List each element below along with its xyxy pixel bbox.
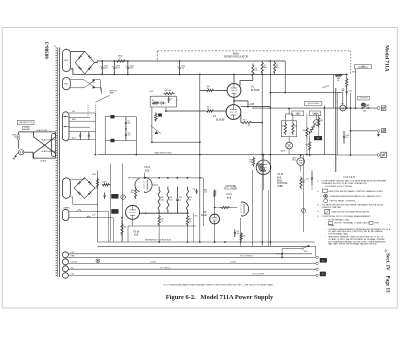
- svg-text:R52: R52: [303, 130, 306, 132]
- capacitor C607: [179, 61, 181, 67]
- svg-text:V3 B: V3 B: [133, 229, 139, 233]
- reference bus junctions: [158, 241, 160, 243]
- primary winding: [52, 134, 56, 157]
- svg-text:V3 A: V3 A: [144, 165, 150, 169]
- svg-text:R14: R14: [243, 120, 246, 122]
- error network side wires: [149, 96, 151, 107]
- svg-text:R84: R84: [337, 78, 340, 80]
- indicator lamp B601: [286, 142, 293, 149]
- wire R603 to V1: [240, 78, 253, 86]
- capacitor C610: [125, 129, 127, 134]
- svg-text:R21: R21: [281, 126, 284, 128]
- resistor R337: [186, 215, 188, 227]
- svg-text:R60: R60: [123, 227, 126, 229]
- svg-text:R304: R304: [103, 181, 107, 183]
- wire TK down: [281, 254, 283, 258]
- svg-text:SERIES REGULATOR: SERIES REGULATOR: [224, 55, 249, 58]
- wire plug to selector: [24, 151, 33, 153]
- svg-text:OHM/VOLT METER.: OHM/VOLT METER.: [322, 207, 342, 209]
- output terminal J1 (+100): [377, 107, 380, 110]
- left sense rail: [104, 117, 106, 154]
- connector plug P2: [320, 272, 326, 276]
- heater line 5: [68, 274, 315, 276]
- V4B top wires: [306, 114, 308, 127]
- series resistor R601: [116, 60, 127, 62]
- svg-text:6L6GB: 6L6GB: [251, 88, 260, 92]
- rail x262: [261, 74, 263, 245]
- resistor R330: [158, 187, 160, 214]
- winding W5: [62, 178, 70, 199]
- svg-text:R8 2.2M: R8 2.2M: [165, 90, 172, 92]
- W6 drops: [105, 211, 108, 242]
- svg-text:60386-3: 60386-3: [44, 41, 50, 58]
- wire tp2: [105, 140, 110, 142]
- dark box B602: [314, 136, 322, 140]
- resistor R612 (V2 grid): [206, 110, 215, 112]
- resistor R622: [292, 122, 294, 135]
- +100V output line: [241, 106, 252, 108]
- gnd output line: [351, 130, 378, 132]
- output terminal J2 (gnd): [377, 130, 380, 133]
- resistor R624 diag: [308, 124, 315, 135]
- svg-text:6U8: 6U8: [227, 197, 232, 199]
- wire V2 plate line: [241, 106, 270, 108]
- boxed label +100 volts: [358, 96, 370, 100]
- bridge D602 out wire: [95, 187, 98, 189]
- wire W2 to bridge bottom: [70, 69, 85, 75]
- bridge D601 output wire: [94, 62, 97, 64]
- heater line 4: [68, 268, 315, 270]
- svg-text:68k: 68k: [250, 161, 253, 163]
- wire primary left: [17, 132, 19, 135]
- rail x268: [267, 190, 269, 246]
- resistor R614 (V2 cathode): [240, 115, 242, 123]
- transformer T601 core: [59, 48, 61, 278]
- winding W4: [62, 112, 69, 141]
- wire R660: [121, 218, 123, 223]
- capacitor C605: [343, 131, 345, 137]
- svg-text:AMP: AMP: [110, 92, 115, 95]
- resistor R608: [164, 93, 175, 95]
- capacitor C650: [311, 172, 313, 178]
- winding W2 (rectifier): [62, 49, 70, 71]
- resistor R604: [274, 61, 276, 74]
- svg-text:OBTAINED WITH 117V AC LINE OPE: OBTAINED WITH 117V AC LINE OPERATION.: [322, 182, 368, 185]
- boxed label free regulation: [355, 64, 372, 68]
- wire x193 drop: [192, 213, 194, 242]
- svg-text:GREEN: GREEN: [64, 208, 71, 210]
- svg-text:100: 100: [254, 70, 257, 72]
- tube V2: [226, 105, 241, 120]
- V3 row top junctions: [158, 177, 160, 179]
- error network top rail: [150, 95, 176, 97]
- resistor R652: [306, 127, 308, 138]
- svg-text:NO EXTERNAL LOAD.: NO EXTERNAL LOAD.: [328, 218, 350, 221]
- filter capacitor C602: [113, 61, 115, 67]
- wire W5 to bridge2 top: [70, 178, 84, 180]
- resistor R660: [121, 223, 123, 236]
- svg-text:100k: 100k: [161, 199, 165, 201]
- rail x203: [202, 178, 204, 226]
- V3B grid arrow: [145, 212, 148, 214]
- lamp network box: [281, 121, 296, 137]
- svg-text:.1uF: .1uF: [127, 135, 130, 137]
- svg-text:VOLTS: VOLTS: [295, 114, 300, 116]
- svg-text:C41: C41: [192, 189, 195, 191]
- tube V3B: [126, 205, 140, 219]
- tube V5: [210, 214, 220, 224]
- svg-text:47: 47: [207, 88, 209, 90]
- heater line 3: [68, 262, 315, 264]
- svg-text:Ⓡ: Ⓡ: [384, 248, 387, 253]
- svg-text:10k: 10k: [264, 67, 267, 69]
- svg-text:10k: 10k: [189, 221, 192, 223]
- svg-text:Figure 6-2. Model 711A Power: Figure 6-2. Model 711A Power Supply: [166, 294, 274, 301]
- W4 tap 4: [69, 126, 90, 128]
- svg-text:FRONT-PANEL CONTROL.: FRONT-PANEL CONTROL.: [330, 199, 357, 202]
- svg-text:R51: R51: [302, 180, 305, 182]
- V3 lower rail: [128, 225, 196, 227]
- svg-text:V5: V5: [203, 210, 207, 214]
- svg-text:SW3: SW3: [304, 251, 308, 253]
- switch SW602: [361, 107, 363, 109]
- boxed label dc volts: [309, 111, 320, 116]
- svg-text:DENOTES FRONT-PANEL CONTROL MA: DENOTES FRONT-PANEL CONTROL MARKING ONLY…: [329, 190, 384, 193]
- svg-text:BLACK-RED: BLACK-RED: [37, 129, 49, 132]
- meter M601: [340, 105, 346, 111]
- resistor R640: [214, 190, 216, 198]
- pot R654: [301, 209, 305, 213]
- svg-text:SW2: SW2: [363, 111, 366, 113]
- winding W3: [62, 77, 70, 89]
- V3B grid rail: [140, 212, 189, 214]
- svg-text:TUBE: TUBE: [277, 186, 283, 188]
- svg-text:BLACK: BLACK: [41, 160, 48, 163]
- fuse F601: [17, 135, 20, 138]
- svg-text:TO V4, V5 HTRS: TO V4, V5 HTRS: [252, 274, 264, 276]
- svg-text:CONDITIONS OF DC VOLTAGE MEASU: CONDITIONS OF DC VOLTAGE MEASUREMENT:: [322, 215, 372, 218]
- svg-text:6L6GB: 6L6GB: [216, 118, 225, 122]
- svg-text:V4 B: V4 B: [277, 172, 283, 176]
- svg-text:6U8: 6U8: [145, 170, 150, 173]
- wire error out down: [151, 107, 153, 142]
- filter capacitor C603: [127, 61, 129, 67]
- W6 hops: [78, 210, 81, 212]
- rail x252: [251, 170, 253, 246]
- svg-text:.1uF: .1uF: [236, 233, 239, 235]
- svg-text:YEL: YEL: [72, 111, 75, 113]
- svg-text:R42: R42: [243, 235, 246, 237]
- wire error to V2 grid: [165, 107, 167, 111]
- resistor R651: [300, 177, 302, 190]
- resistor R331: [167, 187, 169, 214]
- svg-text:MINAL.: MINAL.: [328, 224, 335, 227]
- svg-text:6.3V: 6.3V: [91, 82, 96, 84]
- svg-text:.1uF: .1uF: [127, 122, 130, 124]
- W6 line 2: [69, 217, 105, 219]
- dashed shield pair: [87, 105, 89, 118]
- svg-text:BIAS: BIAS: [277, 180, 283, 183]
- svg-text:220k: 220k: [169, 199, 173, 201]
- sense terminal TP2: [111, 139, 115, 142]
- svg-text:R7: R7: [152, 100, 154, 102]
- svg-text:DC VOLTAGES AND WAVEFORMS OBTA: DC VOLTAGES AND WAVEFORMS OBTAINED UNDER…: [164, 283, 274, 286]
- heater wire 1: [70, 80, 101, 94]
- V4A grid line: [220, 207, 221, 209]
- bridge rectifier D601: [75, 51, 94, 74]
- svg-text:6U8: 6U8: [134, 235, 139, 237]
- winding W6: [62, 209, 68, 220]
- svg-text:C50: C50: [306, 179, 309, 181]
- svg-text:OUTPUT TERMINAL CONNECTED TO: OUTPUT TERMINAL CONNECTED TO: [334, 222, 370, 225]
- svg-text:.05: .05: [345, 137, 347, 139]
- svg-text:R36: R36: [161, 219, 164, 221]
- error amp diagonal wire: [95, 95, 109, 102]
- svg-text:C8: C8: [170, 99, 172, 101]
- heater line 1: [68, 253, 312, 255]
- svg-text:4.7: 4.7: [119, 58, 122, 60]
- rail x303 lower: [303, 155, 305, 232]
- svg-text:Model 711A: Model 711A: [384, 45, 390, 72]
- svg-text:BLACK-GREEN: BLACK-GREEN: [42, 150, 56, 153]
- heater crossing arrows: [93, 86, 96, 89]
- svg-text:4.7k: 4.7k: [204, 192, 207, 194]
- wire W2 to bridge top: [70, 51, 85, 53]
- rail x270: [269, 61, 271, 246]
- bias bus y154.6: [98, 154, 336, 156]
- V3 top rail: [128, 177, 203, 179]
- screen bias network: [333, 74, 335, 108]
- resistor R650: [253, 157, 255, 167]
- svg-text:B601: B601: [281, 151, 285, 153]
- wire c650: [311, 170, 313, 172]
- reference bus: [140, 241, 315, 243]
- resistor R310: [97, 178, 99, 188]
- svg-text:TER-: TER-: [374, 223, 379, 225]
- diode D607: [161, 102, 164, 105]
- V3 inner rail2: [122, 164, 124, 241]
- thermal switch wire: [282, 249, 302, 254]
- svg-text:+100 VOLTS: +100 VOLTS: [359, 98, 368, 100]
- AC plug P601: [19, 150, 24, 155]
- thermal switch wire2: [309, 246, 316, 256]
- resistor R336: [158, 215, 160, 227]
- svg-text:C30: C30: [179, 197, 182, 199]
- cap on taps 1: [79, 132, 81, 136]
- W4 tap 5: [69, 131, 96, 133]
- svg-text:SCREWDRIVER ADJUSTMENT ON CHAS: SCREWDRIVER ADJUSTMENT ON CHASSIS ONLY.: [330, 195, 382, 198]
- svg-text:P2: P2: [322, 274, 324, 276]
- rail x324: [324, 105, 326, 155]
- wire x136 to bus: [135, 154, 137, 156]
- capacitor C608: [168, 96, 170, 99]
- wire W5 to bridge2 bottom: [70, 196, 73, 198]
- capacitor C642: [234, 230, 236, 233]
- svg-text:YEL: YEL: [71, 267, 74, 269]
- wire primary top: [18, 131, 33, 133]
- V3 left rail: [97, 171, 99, 243]
- svg-text:V1: V1: [251, 85, 255, 89]
- wire bus drop to V1 plate: [233, 74, 235, 83]
- unregulated + bus: [97, 60, 285, 62]
- svg-text:FOR NOMINAL LINE.: FOR NOMINAL LINE.: [328, 232, 348, 235]
- svg-text:6U8: 6U8: [277, 178, 282, 180]
- V5 wires: [214, 198, 216, 215]
- trimmer R623: [314, 120, 319, 125]
- note 2b: [324, 199, 328, 203]
- resistor R653: [318, 117, 320, 128]
- plug cord arrow: [15, 152, 18, 156]
- svg-text:T1: T1: [54, 46, 56, 48]
- tube V4B: [256, 160, 271, 175]
- svg-text:TO V1, V2 PIN 2, 7: TO V1, V2 PIN 2, 7: [240, 256, 253, 258]
- V3A leads: [144, 173, 146, 178]
- note 2a: [324, 194, 328, 198]
- svg-text:C42: C42: [236, 231, 239, 233]
- fuse F602: [361, 103, 365, 106]
- switch SW603: [302, 248, 304, 250]
- svg-text:GAS-FILLED VOLTAGE REGULATOR.: GAS-FILLED VOLTAGE REGULATOR.: [332, 211, 370, 214]
- tube V1: [227, 84, 241, 98]
- tube V3A: [145, 177, 153, 192]
- heater line 2: [68, 256, 315, 258]
- resistor R611 (V1 grid): [206, 89, 215, 91]
- svg-text:+470: +470: [149, 91, 153, 93]
- minus output line: [336, 154, 377, 156]
- svg-text:27k: 27k: [276, 67, 279, 69]
- boxed label +100 adj: [304, 102, 322, 106]
- resistor R603: [252, 64, 254, 78]
- connector plug P1: [320, 258, 327, 262]
- selector cross wires: [33, 131, 56, 133]
- svg-text:820k: 820k: [130, 192, 134, 194]
- svg-text:V2: V2: [213, 114, 217, 118]
- svg-text:6AU6: 6AU6: [201, 214, 208, 217]
- rail x240: [240, 218, 242, 246]
- tube V4A: [242, 202, 249, 216]
- chassis rail double: [335, 88, 337, 172]
- resistor R607: [152, 102, 159, 104]
- resistor R625: [309, 141, 311, 151]
- unregulated return bus: [85, 73, 347, 75]
- svg-text:270: 270: [161, 221, 164, 223]
- svg-text:BIAS SUPPLY BUS: BIAS SUPPLY BUS: [155, 151, 173, 154]
- W4 right rail: [95, 113, 97, 155]
- rail x199: [199, 74, 201, 242]
- wire x355 drop: [354, 69, 356, 108]
- svg-text:VOLTAGES ±10% TYPICAL.: VOLTAGES ±10% TYPICAL.: [325, 185, 353, 188]
- pilot lamp B602: [96, 259, 100, 263]
- sense terminal TP4: [112, 209, 119, 213]
- wire y142: [152, 141, 200, 143]
- wire V1 cathode to V2 plate: [233, 97, 235, 104]
- svg-text:R35: R35: [195, 216, 198, 218]
- filter capacitor C601: [101, 61, 103, 67]
- svg-text:.01: .01: [179, 199, 181, 201]
- winding W7d: [62, 273, 68, 278]
- svg-text:R22: R22: [294, 126, 297, 128]
- error network bottom rail: [150, 106, 176, 108]
- mid rail x136: [135, 117, 137, 154]
- transformer T601 core laminations: [55, 48, 57, 278]
- W4 tap 6: [69, 139, 96, 141]
- lower-left rail link: [98, 241, 140, 243]
- resistor R334: [186, 187, 188, 214]
- svg-text:R30: R30: [161, 197, 164, 199]
- svg-text:REFERENCE VOLTAGE BUS: REFERENCE VOLTAGE BUS: [145, 239, 172, 242]
- svg-text:Sect. IV Page 13: Sect. IV Page 13: [384, 253, 390, 293]
- lamp network leads: [284, 114, 286, 122]
- rail x350: [350, 93, 352, 155]
- resistor R620: [135, 187, 137, 198]
- wire V2 cathode to rail: [253, 122, 263, 124]
- svg-text:FOLLOWER: FOLLOWER: [224, 188, 237, 190]
- svg-text:MAY VARY FROM THE NOMINAL VALU: MAY VARY FROM THE NOMINAL VALUES SHOWN.: [328, 243, 377, 246]
- W6 line 1: [69, 210, 105, 212]
- 115V box: [23, 126, 29, 129]
- capacitor C641: [196, 189, 198, 191]
- sense terminal TP3: [112, 194, 119, 198]
- svg-text:R50: R50: [249, 159, 252, 161]
- svg-text:V4 A: V4 A: [226, 192, 232, 196]
- V3B cathode drop: [132, 219, 134, 226]
- winding W7a: [62, 252, 68, 258]
- W4 tap 1: [69, 112, 96, 114]
- wire V2 grid: [214, 110, 226, 112]
- resistor R621: [284, 122, 286, 135]
- pot R311: [121, 195, 126, 200]
- svg-text:NE-2: NE-2: [292, 159, 296, 161]
- svg-text:R310: R310: [92, 174, 96, 176]
- sense terminal TP1: [111, 115, 115, 118]
- capacitor C311: [104, 193, 106, 196]
- tube V602 (neon): [297, 158, 305, 166]
- W4 tap 2: [69, 116, 90, 118]
- svg-text:+225: +225: [249, 104, 255, 106]
- wires adjust chain: [315, 124, 317, 127]
- svg-text:R34: R34: [189, 197, 192, 199]
- resistor R642: [240, 233, 242, 242]
- wire meter drop: [342, 93, 344, 106]
- svg-text:P1: P1: [322, 260, 324, 262]
- winding W7b: [62, 259, 68, 265]
- bridge rectifier D602: [74, 178, 95, 199]
- resistor R304h: [102, 184, 110, 186]
- svg-text:TO V3 PIN 4, 5: TO V3 PIN 4, 5: [160, 267, 171, 269]
- V3 inner rail: [110, 164, 112, 241]
- wire tp1: [105, 116, 110, 118]
- svg-text:6.3V 2A: 6.3V 2A: [71, 261, 78, 264]
- cap on taps 2: [88, 132, 90, 136]
- output terminal J3 (-): [377, 154, 380, 157]
- svg-text:47k: 47k: [302, 182, 305, 184]
- svg-text:56k: 56k: [248, 125, 251, 127]
- capacitor C609: [125, 117, 127, 123]
- svg-text:NOTES: NOTES: [344, 175, 356, 179]
- left small parts: [155, 113, 157, 122]
- svg-text:C84: C84: [349, 91, 352, 93]
- winding W7c: [62, 266, 68, 272]
- svg-text:LINE SELECTOR: LINE SELECTOR: [19, 122, 34, 124]
- junction dot TK: [281, 253, 283, 255]
- lower bus y246: [98, 245, 310, 247]
- W4 tap 3: [69, 120, 96, 122]
- regulator dashed boundary: [157, 50, 350, 52]
- V4B wires: [263, 155, 265, 160]
- svg-text:CATHODE: CATHODE: [225, 185, 237, 188]
- svg-text:R53: R53: [320, 120, 323, 122]
- svg-text:BLACK-WHITE: BLACK-WHITE: [42, 138, 56, 141]
